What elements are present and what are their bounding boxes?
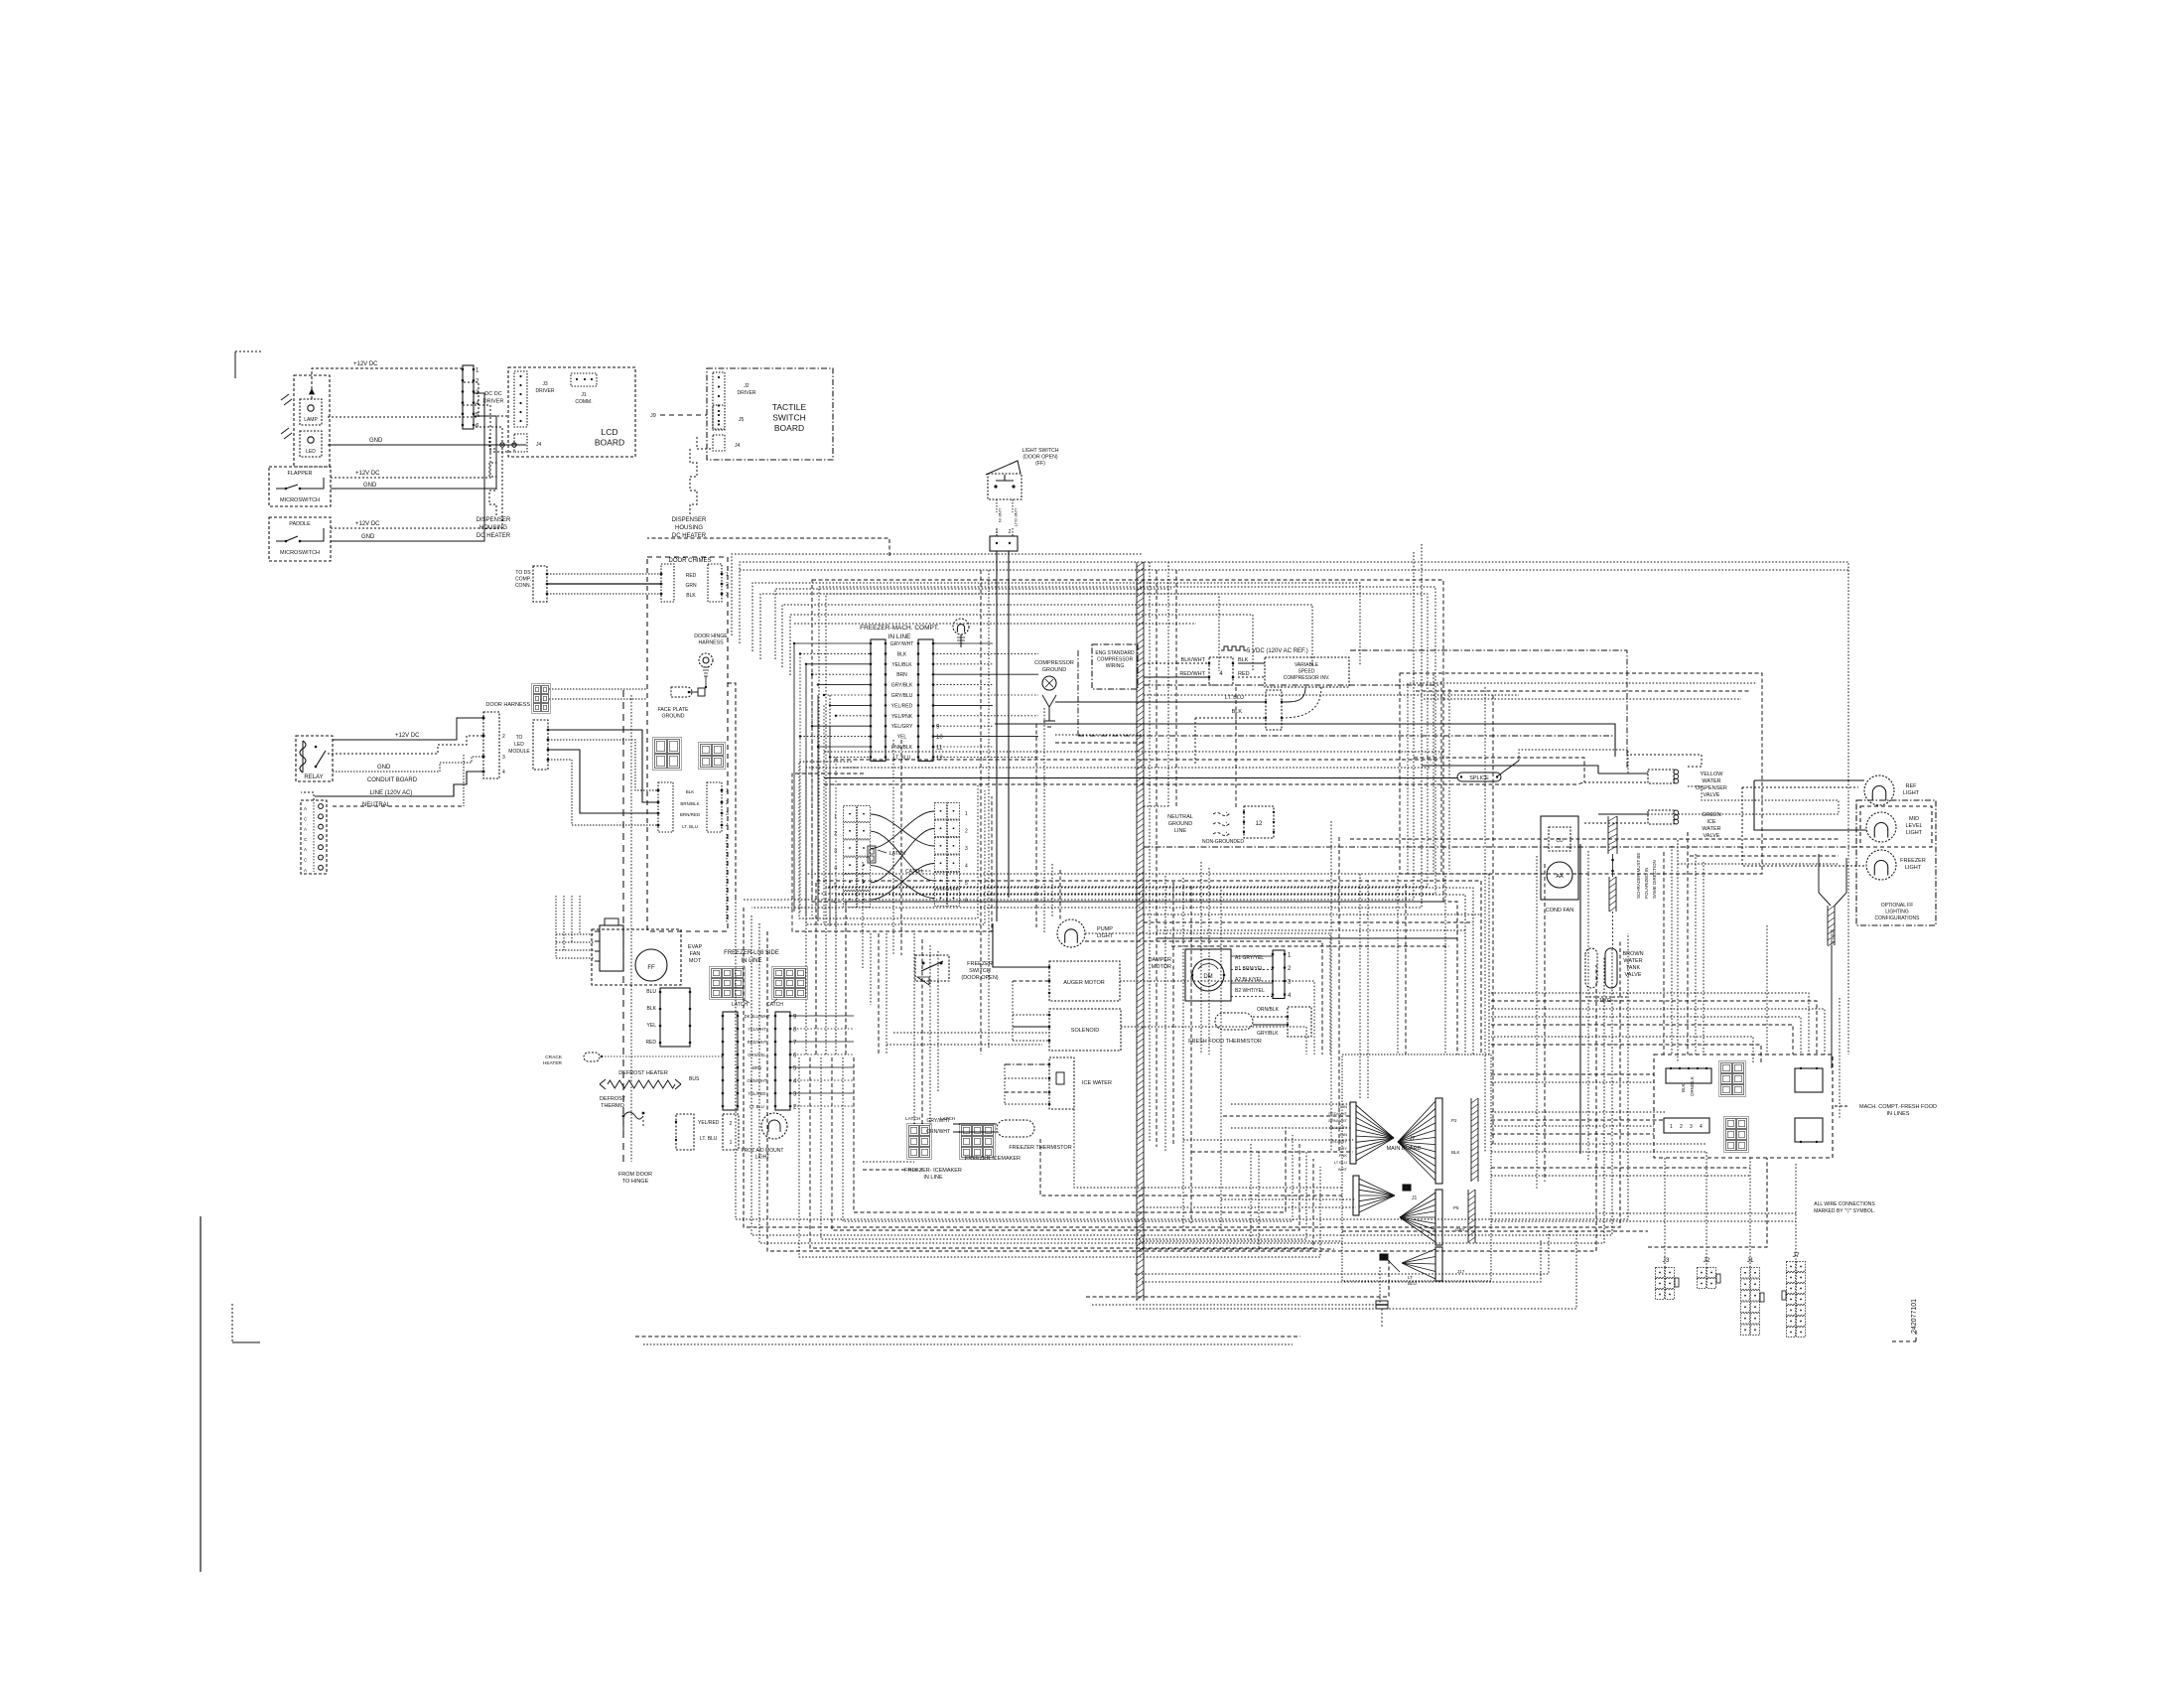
- svg-text:11: 11: [936, 746, 943, 752]
- crossover inner loop 2: [806, 768, 985, 924]
- label GRY-BLK: [1257, 1031, 1279, 1037]
- mc feed 2: [1491, 1081, 1654, 1083]
- led module connector P3: [533, 720, 549, 770]
- svg-text:YEL/PNK: YEL/PNK: [891, 714, 913, 720]
- svg-text:GND: GND: [369, 438, 383, 444]
- svg-text:5: 5: [965, 881, 968, 887]
- splice bar lights: [1828, 906, 1835, 946]
- pack 4: [1121, 1027, 1306, 1055]
- svg-text:1: 1: [726, 572, 729, 578]
- label NEUTRAL GROUND LINE: [1167, 814, 1193, 834]
- svg-text:GRY/BLK: GRY/BLK: [891, 683, 913, 689]
- svg-text:SAME DIRECTION: SAME DIRECTION: [1652, 860, 1657, 899]
- label FREEZER-MACH COMPT IN LINE: [860, 625, 939, 640]
- svg-text:TO: TO: [516, 735, 523, 741]
- mb ground stub: [1376, 1301, 1388, 1329]
- brown water tank valve: [1585, 948, 1617, 988]
- wire neutral run: [333, 755, 464, 806]
- run cap 1: [1608, 816, 1617, 854]
- label J9 stub: [650, 413, 707, 419]
- svg-text:LT. BLU: LT. BLU: [1225, 695, 1244, 701]
- svg-text:SWITCH: SWITCH: [772, 413, 806, 423]
- svg-text:SPLICE: SPLICE: [1469, 775, 1489, 781]
- svg-text:4: 4: [1700, 1124, 1703, 1130]
- wire tactile heater drop: [690, 437, 713, 515]
- mb fan 1: [1356, 1105, 1394, 1161]
- mb small comp 2: [1380, 1254, 1417, 1286]
- svg-text:FAN: FAN: [690, 951, 701, 957]
- svg-text:LIGHT SWITCH: LIGHT SWITCH: [1022, 448, 1058, 454]
- svg-text:PUMP: PUMP: [1097, 926, 1113, 932]
- mach compt box: [1654, 1055, 1833, 1158]
- paddle microswitch box: [269, 517, 331, 561]
- svg-text:1: 1: [834, 814, 837, 820]
- rb bundle 4: [1491, 1017, 1801, 1055]
- mb left bar 2: [1353, 1176, 1359, 1215]
- mb left labels 1: [1328, 1104, 1347, 1172]
- ref light wires: [1742, 780, 1866, 866]
- svg-text:ICE: ICE: [1706, 819, 1716, 825]
- rb bundle 5: [1491, 1025, 1793, 1055]
- svg-text:LCD: LCD: [601, 427, 617, 437]
- left-of-hatch verticals: [1036, 708, 1044, 933]
- hbus 2: [816, 881, 1481, 1055]
- svg-text:DEFROST: DEFROST: [600, 1096, 626, 1102]
- svg-text:LATCH: LATCH: [940, 1116, 956, 1122]
- svg-text:J4: J4: [536, 442, 542, 448]
- svg-text:A: A: [304, 868, 307, 873]
- ref light: [1864, 775, 1894, 805]
- inv curve2: [1282, 687, 1321, 718]
- main board outline: [1342, 1055, 1491, 1281]
- neutral terminal block: [301, 800, 327, 874]
- freezer inline wire labels: [745, 1014, 770, 1109]
- svg-text:FREEZER ICEMAKER: FREEZER ICEMAKER: [965, 1156, 1021, 1162]
- lattice h3: [1157, 929, 1465, 931]
- loop L5: [767, 931, 1596, 1251]
- LCD conn J4: [514, 434, 542, 452]
- svg-text:MICROSWITCH: MICROSWITCH: [280, 497, 320, 503]
- svg-text:1: 1: [730, 1140, 733, 1146]
- svg-text:DK BLU/WHT: DK BLU/WHT: [745, 1014, 770, 1019]
- label +12V DC paddle: [355, 521, 380, 527]
- vert x1245: [1235, 687, 1237, 808]
- label J3: [1663, 1257, 1670, 1264]
- svg-text:WIRING: WIRING: [1106, 663, 1125, 669]
- svg-text:COMPRESSOR INV.: COMPRESSOR INV.: [1284, 675, 1330, 681]
- svg-text:FACE PLATE: FACE PLATE: [657, 707, 689, 713]
- mid horizontals y1040: [887, 1033, 1049, 1045]
- pack 6: [1040, 1139, 1342, 1196]
- svg-text:242077101: 242077101: [1911, 1299, 1918, 1334]
- lattice h4: [1157, 937, 1457, 939]
- ground line arrows: [1213, 812, 1229, 836]
- svg-text:LIGHT: LIGHT: [1097, 933, 1114, 939]
- label GND paddle: [361, 534, 375, 540]
- mb east 1: [1491, 1112, 1665, 1120]
- pack 2: [1085, 941, 1322, 1055]
- svg-text:RED/WHT: RED/WHT: [748, 1040, 767, 1045]
- mc feed 6: [1491, 1045, 1761, 1062]
- svg-text:FREEZER- ICEMAKER: FREEZER- ICEMAKER: [904, 1168, 962, 1174]
- crossover inner loop 3: [792, 774, 992, 931]
- compressor ground icon: [1042, 676, 1056, 727]
- mb east 3: [1491, 1168, 1750, 1176]
- pump light: [1057, 919, 1085, 947]
- mb left bar 1: [1350, 1102, 1356, 1164]
- ff thermistor conn: [1287, 1007, 1311, 1037]
- lattice v2: [1201, 862, 1209, 1055]
- splice bar drop: [1831, 945, 1833, 998]
- svg-text:POLARIZED IN: POLARIZED IN: [1644, 868, 1649, 899]
- vert x1862 drop: [1847, 780, 1849, 1055]
- pack 5: [1074, 1109, 1342, 1188]
- right big dashed rect inner: [1408, 683, 1757, 874]
- wire lightswitch long drop 1: [996, 551, 998, 921]
- svg-text:GRY/BLU: GRY/BLU: [891, 693, 913, 699]
- svg-text:COND FAN: COND FAN: [1546, 908, 1573, 914]
- svg-text:BLK: BLK: [686, 593, 696, 599]
- door chimes bottom conn right: [707, 782, 729, 832]
- LCD header J3: [514, 371, 527, 427]
- loop L2: [744, 908, 1620, 1227]
- splice feed solid: [824, 777, 1457, 779]
- svg-text:GROUND: GROUND: [1042, 667, 1066, 673]
- svg-text:SCHRADER MUST BE: SCHRADER MUST BE: [1636, 853, 1641, 899]
- mb J1 label: [1412, 1196, 1418, 1201]
- lamp arrows: [281, 394, 292, 439]
- LCD conn J1: [571, 373, 597, 386]
- freezer inline strip A: [722, 1012, 740, 1110]
- label ENG STANDARD: [1095, 650, 1135, 669]
- label MAIN BOARD: [1387, 1146, 1422, 1152]
- svg-text:RED: RED: [645, 1040, 656, 1046]
- label FREEZER THERMISTOR: [1009, 1145, 1071, 1151]
- mc feed 5: [1491, 1037, 1753, 1062]
- wire lightswitch long drop 2: [1008, 551, 1010, 898]
- label GRY-WHT: [926, 1118, 950, 1124]
- label FREEZER ICEMAKER: [965, 1156, 1021, 1162]
- svg-text:DEFROST HEATER: DEFROST HEATER: [618, 1070, 668, 1076]
- svg-text:DOOR HINGE: DOOR HINGE: [694, 633, 728, 639]
- ice water box: [1049, 1057, 1074, 1109]
- label J1 comm: [575, 392, 592, 405]
- freezer thermistor leads: [953, 1124, 997, 1132]
- label DC DC DRIVER: [483, 391, 504, 405]
- rbus 1: [1648, 1158, 1767, 1247]
- froz aid mount light: [761, 1113, 787, 1139]
- label FREEZER ICEMAKER IN LINE: [904, 1168, 962, 1181]
- svg-text:BLK/WHT: BLK/WHT: [1181, 657, 1206, 663]
- svg-text:4: 4: [965, 864, 968, 870]
- label TO LED MODULE: [508, 735, 530, 755]
- svg-text:YELLOW: YELLOW: [1701, 772, 1724, 777]
- J drops: [1665, 1152, 1796, 1267]
- freezer inline strip B: [774, 1012, 797, 1111]
- label door harness: [485, 702, 530, 708]
- svg-text:NEUTRAL: NEUTRAL: [362, 802, 391, 808]
- latch grid right: [935, 803, 960, 907]
- wire bus top 4: [760, 594, 1219, 671]
- run cap pins: [1611, 854, 1614, 877]
- label GND flapper: [363, 483, 377, 489]
- damper motor box: [1185, 949, 1231, 1001]
- mid level light: [1866, 812, 1896, 842]
- svg-text:3: 3: [726, 811, 729, 817]
- svg-text:1: 1: [726, 788, 729, 794]
- label FREEZER SWITCH: [961, 961, 998, 981]
- freezer side conn left: [659, 988, 692, 1047]
- svg-text:GRY/BLK: GRY/BLK: [1257, 1031, 1279, 1037]
- label BROWN WATER TANK VALVE: [1622, 951, 1643, 978]
- svg-text:J3: J3: [1663, 1257, 1670, 1264]
- svg-text:BUS: BUS: [689, 1076, 700, 1082]
- svg-text:GRY/WHT: GRY/WHT: [890, 641, 914, 647]
- misc h 700: [1144, 694, 1519, 696]
- mb right bar 1: [1471, 1098, 1478, 1182]
- svg-text:A: A: [304, 847, 307, 852]
- splice label: [1457, 773, 1501, 781]
- svg-text:BLK: BLK: [1232, 709, 1243, 715]
- label LATCH: [878, 850, 905, 857]
- mb small comp 1: [1403, 1185, 1411, 1191]
- light feed dash y845: [1350, 838, 1839, 840]
- comp verticals: [1144, 562, 1862, 847]
- label NON-GROUNDED: [1202, 839, 1244, 845]
- yel-red conn: [675, 1114, 694, 1150]
- mid level light box: [1860, 806, 1932, 847]
- label ORN-WHT: [926, 1129, 950, 1135]
- label FROM DOOR TO HINGE: [618, 1172, 652, 1185]
- label DAMPER MOTOR: [1148, 957, 1171, 970]
- mc bar 2: [1664, 1118, 1709, 1133]
- svg-text:LT: LT: [1408, 1275, 1413, 1280]
- svg-text:BLK: BLK: [897, 651, 907, 657]
- bottom dashed 1: [635, 1336, 1300, 1337]
- svg-text:LT. BLU: LT. BLU: [700, 1136, 718, 1142]
- center verticals 3: [1052, 864, 1060, 919]
- label CATCH: [905, 869, 931, 875]
- svg-text:A: A: [304, 806, 307, 811]
- svg-text:MODULE: MODULE: [508, 749, 530, 755]
- crossover inner loop 1: [799, 762, 978, 918]
- lattice v3: [1398, 876, 1406, 1055]
- wire led feed: [328, 382, 478, 417]
- outer loop right side 2: [751, 544, 1422, 908]
- svg-text:J4: J4: [735, 443, 741, 449]
- wire ds grn: [547, 583, 661, 585]
- svg-text:J1: J1: [581, 392, 587, 398]
- svg-text:LIGHT: LIGHT: [1903, 790, 1920, 796]
- wire ltblu: [1055, 701, 1266, 703]
- svg-text:3: 3: [502, 755, 505, 761]
- label GND top: [369, 438, 383, 444]
- svg-text:RED: RED: [1238, 671, 1250, 677]
- outer loop right side: [744, 552, 1414, 900]
- label FACE PLATE GROUND: [657, 707, 689, 720]
- light switch lower box: [990, 529, 1018, 551]
- label MACH COMPT FRESH FOOD IN LINES: [1835, 1104, 1937, 1117]
- above J bar: [1342, 1230, 1648, 1232]
- label +12V DC: [353, 361, 378, 367]
- svg-text:CONFIGURATIONS: CONFIGURATIONS: [1875, 915, 1921, 921]
- label LCD BOARD: [595, 427, 624, 448]
- svg-text:EVAP: EVAP: [688, 944, 703, 950]
- svg-text:AUGER MOTOR: AUGER MOTOR: [1063, 980, 1104, 986]
- svg-text:VALVE: VALVE: [1704, 833, 1720, 839]
- svg-text:DC DC: DC DC: [484, 391, 501, 397]
- svg-text:LT. BLU: LT. BLU: [893, 755, 911, 761]
- svg-text:2: 2: [726, 800, 729, 806]
- svg-text:PNK: PNK: [1339, 1153, 1348, 1158]
- label ALL WIRE CONNECTIONS: [1814, 1201, 1875, 1214]
- auger motor box: [1049, 961, 1120, 1001]
- wire line 120v: [315, 772, 483, 796]
- svg-text:DOOR HARNESS: DOOR HARNESS: [485, 702, 530, 708]
- mb east 2: [1491, 1144, 1706, 1152]
- wire bus top 5: [782, 605, 1312, 667]
- lamp L1: [300, 399, 322, 425]
- freezer switch icon: [915, 955, 949, 985]
- wire relay gnd: [333, 757, 483, 772]
- svg-text:LIGHT: LIGHT: [1905, 865, 1922, 871]
- compressor aux box: [1265, 690, 1283, 730]
- in-line outer rect 1: [826, 594, 1428, 887]
- svg-text:WATER: WATER: [1702, 778, 1720, 784]
- label 1502: [1585, 997, 1628, 1004]
- svg-text:LED: LED: [306, 449, 316, 455]
- wire bus top 3: [752, 583, 1360, 666]
- J1 connector: [1741, 1268, 1765, 1336]
- svg-text:DRIVER: DRIVER: [738, 390, 756, 396]
- label LT BLU 2: [700, 1136, 718, 1142]
- relay coil: [300, 741, 306, 773]
- svg-text:BRN/RED: BRN/RED: [680, 812, 701, 817]
- labels blu blk yel red: [645, 989, 656, 1046]
- evap fan plug: [595, 918, 623, 971]
- in-line outer rect 2: [819, 587, 1435, 894]
- door harness connector: [532, 684, 551, 714]
- led D1: [300, 431, 322, 457]
- svg-text:P2: P2: [1451, 1118, 1457, 1123]
- crack heater icon: [543, 1053, 723, 1066]
- label LIGHT SWITCH: [1022, 448, 1058, 467]
- defrost thermo icon: [622, 1112, 645, 1132]
- label DEFROST HEATER: [618, 1070, 668, 1076]
- mc feed 1: [1491, 1073, 1654, 1075]
- eng standard compressor wiring box: [1092, 644, 1138, 689]
- in-line outer rect 3: [812, 580, 1443, 902]
- latch pin numbers: [834, 811, 968, 906]
- svg-text:SPEED: SPEED: [1298, 669, 1315, 675]
- wire ds blk: [547, 593, 661, 595]
- wire bus top 7: [794, 623, 1196, 625]
- svg-text:P5: P5: [1453, 1205, 1459, 1210]
- label YEL-RED: [698, 1120, 720, 1126]
- label FREEZER-L08 SIDE IN LINE: [724, 950, 779, 964]
- fresh food thermistor: [1215, 1013, 1253, 1030]
- label GREEN ICE WATER VALVE: [1702, 812, 1721, 839]
- svg-text:BLK: BLK: [1681, 1083, 1686, 1092]
- svg-text:SPLICE: SPLICE: [1830, 929, 1835, 945]
- svg-text:TAN: TAN: [1339, 1132, 1347, 1137]
- wire lightswitch drop1: [996, 528, 998, 536]
- label CONDUIT BOARD: [367, 777, 418, 783]
- light switch leads: [997, 499, 1019, 527]
- label J7: [1793, 1252, 1800, 1259]
- svg-text:COMP.: COMP.: [515, 577, 531, 583]
- svg-text:YEL/RED: YEL/RED: [749, 1091, 766, 1096]
- in-line west wires: [793, 642, 871, 759]
- label FRESH FOOD THERMISTOR: [1188, 1039, 1262, 1045]
- wire long y729: [995, 724, 1615, 757]
- paddle switch: [276, 528, 324, 542]
- door chimes grid left: [653, 738, 682, 771]
- label RELAY: [304, 774, 323, 780]
- svg-text:GRY: GRY: [1338, 1146, 1347, 1151]
- label FROZ AID MOUNT LIGHT: [742, 1148, 784, 1161]
- valve wires green: [1584, 814, 1648, 823]
- outer rect A: [726, 683, 736, 899]
- svg-text:LT. BLU: LT. BLU: [682, 824, 698, 829]
- mc feed 4: [1491, 1133, 1654, 1135]
- vertical note text: [1636, 853, 1657, 899]
- mb center bar 1: [1435, 1098, 1442, 1184]
- svg-text:COMPRESSOR: COMPRESSOR: [1034, 660, 1074, 666]
- wire bus top 8: [647, 538, 889, 556]
- misc h 763: [1414, 758, 1584, 782]
- mc bar 1: [1666, 1067, 1711, 1083]
- tactile header J2: [713, 372, 725, 430]
- label PUMP LIGHT: [1097, 926, 1114, 939]
- svg-text:2: 2: [1680, 1124, 1683, 1130]
- latch-catch crossover wires: [871, 811, 934, 900]
- label LINE 120V AC: [370, 790, 413, 796]
- label EVAP FAN MOT: [688, 944, 703, 964]
- svg-text:J5: J5: [739, 417, 745, 423]
- damper connector: [1272, 950, 1292, 999]
- mb J2 label: [1410, 1136, 1416, 1142]
- ff thermistor leads: [1253, 1017, 1288, 1025]
- cond fan motor: [1547, 862, 1572, 888]
- mb fan 2: [1359, 1179, 1395, 1212]
- svg-text:12: 12: [1256, 821, 1263, 827]
- lattice h2: [1144, 921, 1473, 923]
- frz conn 2: [723, 1114, 739, 1150]
- label DOOR CHIMES: [668, 558, 711, 564]
- svg-text:5 VDC (120V AC REF.): 5 VDC (120V AC REF.): [1247, 648, 1308, 654]
- svg-text:VALVE: VALVE: [1704, 792, 1720, 798]
- svg-text:LINE (120V AC): LINE (120V AC): [370, 790, 413, 796]
- in-line strip right: [917, 639, 944, 762]
- conduit connector P2: [482, 712, 506, 778]
- svg-text:AA: AA: [1556, 874, 1564, 880]
- svg-text:NEUTRAL: NEUTRAL: [1167, 814, 1193, 820]
- svg-text:BLU: BLU: [646, 989, 656, 995]
- svg-text:J9: J9: [650, 413, 656, 419]
- label PADDLE: [289, 521, 311, 527]
- label J2b: [1704, 1257, 1710, 1264]
- svg-text:J1?: J1?: [1457, 1269, 1465, 1274]
- svg-text:BOARD: BOARD: [774, 423, 804, 433]
- valve area verticals: [1433, 674, 1493, 1152]
- label BLK: [1238, 657, 1249, 663]
- svg-text:ALL WIRE CONNECTIONS: ALL WIRE CONNECTIONS: [1814, 1201, 1875, 1207]
- freezer light: [1866, 850, 1896, 880]
- run cap drop: [1612, 912, 1614, 948]
- svg-text:+12V DC: +12V DC: [355, 471, 380, 477]
- svg-text:B2 WHT/YEL: B2 WHT/YEL: [1235, 988, 1265, 994]
